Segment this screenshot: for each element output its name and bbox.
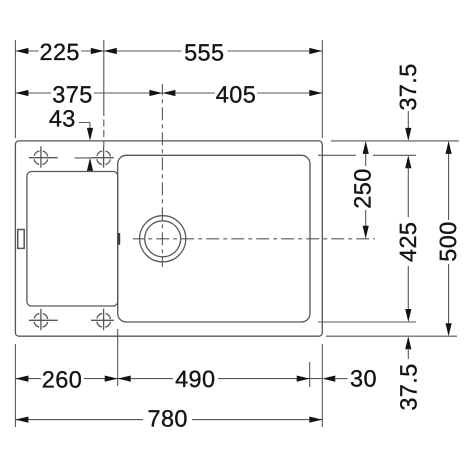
extension line bowl-right bottom [309,362,311,387]
extension line right edge bottom [321,344,323,427]
label 405 [216,81,256,107]
extension line bottom edge right [326,335,457,337]
horizontal centre line through drain [133,238,375,240]
drainer recess [27,172,118,307]
dimension 37.5 top arrow down [405,128,411,141]
dimension 37.5 bottom line [407,348,409,359]
extension line bowl-top right [318,154,416,156]
label 490 [175,366,215,392]
extension line left edge top [14,40,16,138]
dimension 43 leader [79,123,90,130]
label 260 [42,367,82,393]
extension line top edge right [331,140,459,142]
dimension 405 arrow left [162,90,175,96]
dimension 405 line [162,92,322,94]
dimension 260 line [15,378,117,380]
dimension 780 arrow right [309,417,322,423]
dimension 250 arrow down [363,226,369,239]
dimension 375 arrow right [149,90,162,96]
dimension 555 arrow right [309,48,322,54]
dimension 490 arrow left [118,376,131,382]
drain outer circle [140,216,186,262]
dimension 555 line [104,50,322,52]
svg-text:405: 405 [216,81,256,107]
dimension 425 arrow up [405,155,411,168]
label 37.5 top [395,63,421,110]
extension line hole column top [103,40,105,147]
label 375 [52,81,92,107]
tap hole rectangle [18,230,25,249]
dimension 260 arrow left [15,376,28,382]
extension line bowl-bottom right [318,321,416,323]
dimension 500 arrow down [446,323,452,336]
dimension 225 line [15,50,103,52]
dimension 30 line [334,378,347,380]
dimension 405 arrow right [309,90,322,96]
label 250 [350,168,376,208]
dimension 375 arrow left [15,90,28,96]
sink outer rim [15,141,322,336]
svg-text:30: 30 [350,366,377,392]
dimension 500 line [448,153,450,324]
svg-text:780: 780 [147,406,187,432]
dimension 425 line [407,167,409,310]
dimension 780 arrow left [15,417,28,423]
vertical centre line through drain [161,84,163,267]
dimension 30 arrow left [322,376,335,382]
svg-text:490: 490 [175,366,215,392]
hole H2 top-right [91,146,114,168]
svg-text:425: 425 [395,222,421,262]
dimension 225 arrow right [91,48,104,54]
dimension 225 arrow left [15,48,28,54]
label 225 [39,39,79,65]
svg-text:250: 250 [350,168,376,208]
dimension 43 arrow down [87,128,93,141]
label 425 [395,222,421,262]
main bowl [118,155,310,322]
extension line left edge bottom [14,344,16,427]
svg-text:43: 43 [49,106,76,132]
hole H4 bottom-right [91,309,114,331]
label 780 [147,406,187,432]
dimension 250 arrow up [363,141,369,154]
label 30 [350,366,377,392]
label 500 [435,221,461,261]
dimension 37.5 bottom arrow up [405,336,411,349]
dimension 555 arrow left [104,48,117,54]
dimension 500 arrow up [446,141,452,154]
extension line right edge top [321,40,323,138]
label 37.5 bottom [395,363,421,410]
dimension 780 line [15,419,322,421]
dimension 425 arrow down [405,309,411,322]
dimension 250 line [365,153,367,227]
overflow mark [118,233,120,245]
svg-text:555: 555 [184,39,224,65]
dimension 43 arrow up [87,158,93,172]
dimension 43 extension [75,157,92,159]
dimension 375 line [15,92,162,94]
svg-text:500: 500 [435,221,461,261]
label 43 [49,106,76,132]
svg-text:260: 260 [42,367,82,393]
svg-text:37.5: 37.5 [395,63,421,110]
dimension 490 arrow right [297,376,310,382]
hole H3 bottom-left [29,309,58,331]
svg-text:37.5: 37.5 [395,363,421,410]
label 555 [184,39,224,65]
svg-text:375: 375 [52,81,92,107]
svg-text:225: 225 [39,39,79,65]
extension line bowl-left bottom [117,329,119,386]
dimension 37.5 top line [407,111,409,129]
drain inner circle [145,221,181,257]
dimension 260 arrow right [105,376,118,382]
hole H1 top-left [29,146,58,168]
dimension 490 line [118,378,323,380]
